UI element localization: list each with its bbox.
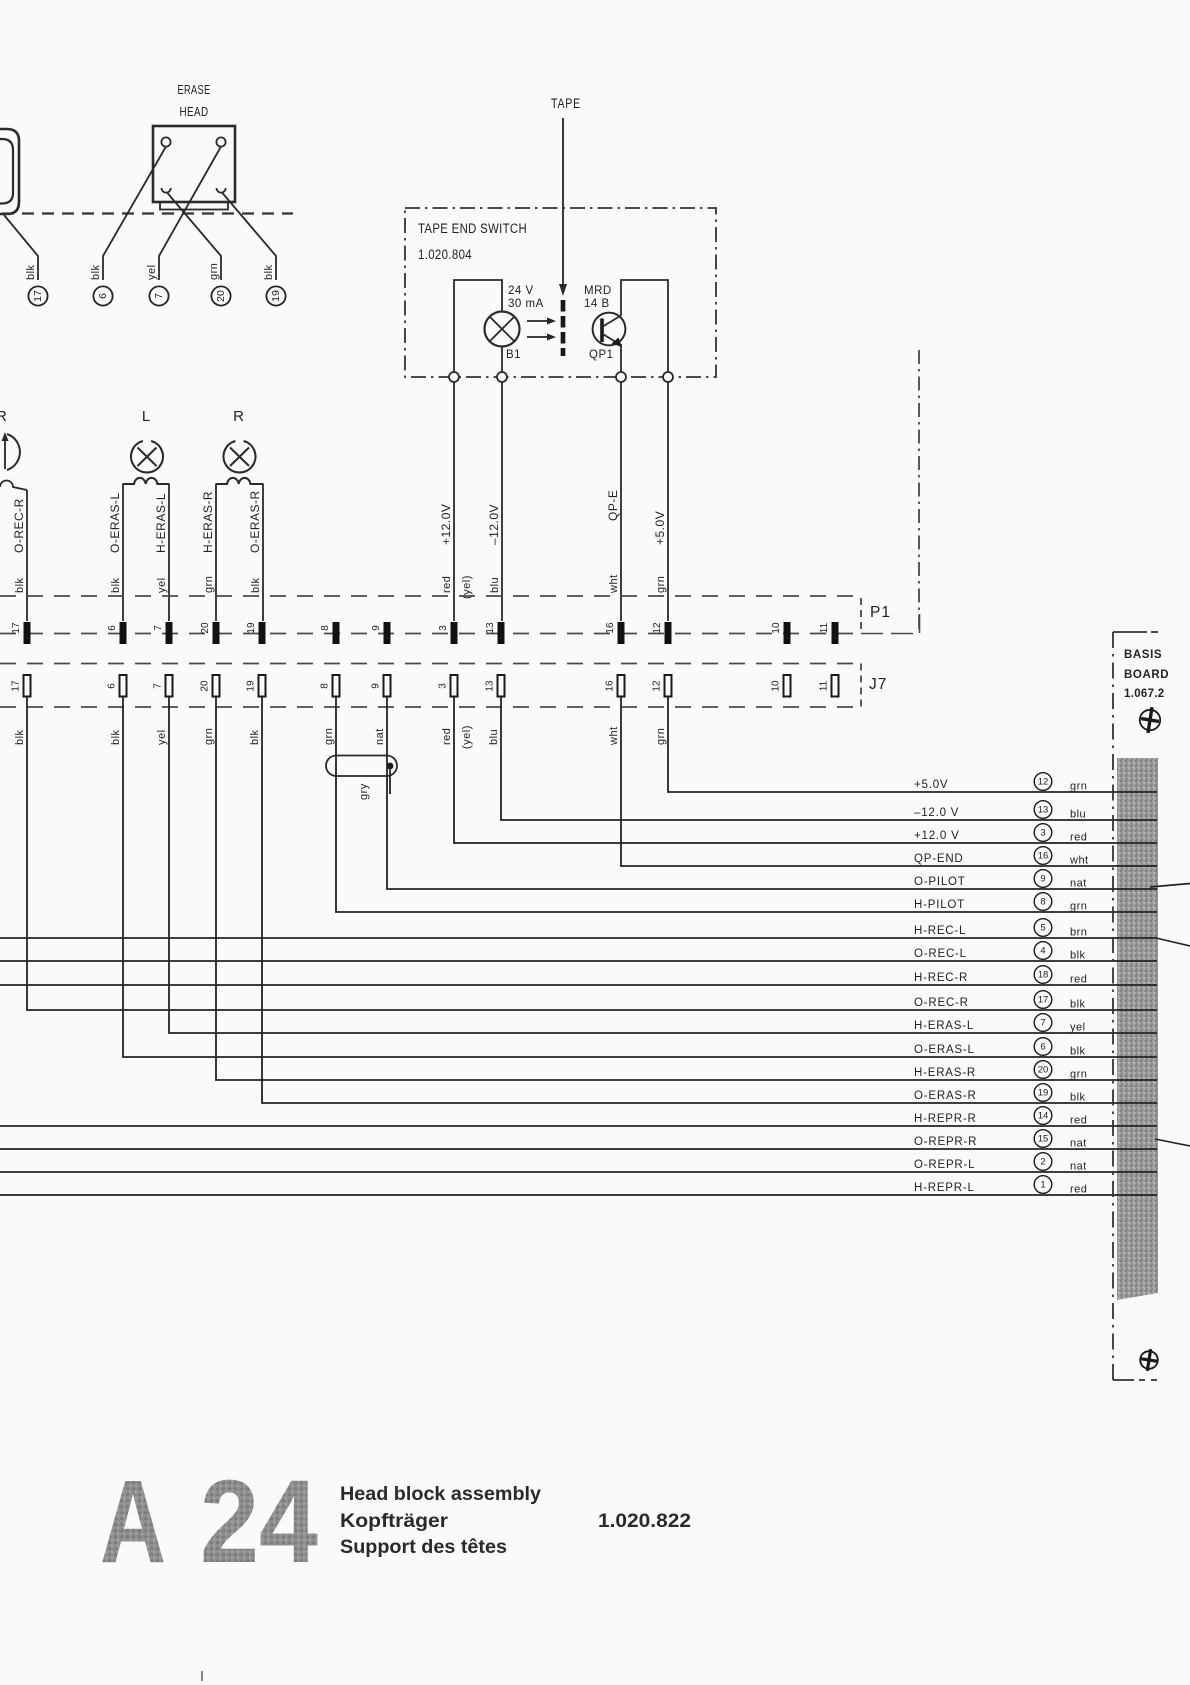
- svg-text:20: 20: [215, 290, 227, 302]
- svg-text:16: 16: [605, 622, 616, 634]
- shield bracket (page-edge cut): [0, 129, 19, 214]
- svg-text:10: 10: [771, 622, 782, 634]
- svg-text:4: 4: [1040, 946, 1045, 957]
- svg-text:R: R: [233, 408, 244, 425]
- svg-text:8: 8: [1040, 897, 1045, 908]
- svg-text:O-REC-R: O-REC-R: [914, 997, 969, 1009]
- svg-text:QP-END: QP-END: [914, 853, 964, 865]
- wire H-REC-L continuation: [1156, 938, 1190, 946]
- svg-text:19: 19: [1038, 1088, 1049, 1099]
- svg-text:H-REC-L: H-REC-L: [914, 925, 966, 937]
- svg-text:P1: P1: [870, 604, 891, 621]
- J7 pin 19: [259, 675, 266, 697]
- svg-text:QP1: QP1: [589, 349, 614, 361]
- node ref 20: [211, 286, 230, 305]
- svg-text:9: 9: [371, 625, 382, 631]
- module boundary (dash-dot): [918, 350, 920, 632]
- svg-text:HEAD: HEAD: [180, 104, 209, 119]
- svg-text:6: 6: [107, 625, 118, 631]
- svg-text:Head block assembly: Head block assembly: [340, 1483, 541, 1505]
- svg-text:yel: yel: [146, 264, 158, 280]
- svg-text:10: 10: [771, 680, 782, 692]
- registration tick: [201, 1671, 203, 1681]
- svg-text:11: 11: [819, 680, 830, 691]
- svg-text:O-ERAS-L: O-ERAS-L: [914, 1044, 975, 1056]
- svg-text:blk: blk: [25, 264, 37, 280]
- svg-text:5: 5: [1040, 923, 1045, 934]
- svg-text:H-ERAS-R: H-ERAS-R: [201, 491, 215, 553]
- svg-text:H-REPR-R: H-REPR-R: [914, 1113, 977, 1125]
- svg-text:blk: blk: [1070, 1046, 1086, 1058]
- net H-REC-R pin 18: [914, 966, 1087, 986]
- tape path arrow: [562, 118, 564, 285]
- svg-text:17: 17: [11, 680, 22, 692]
- svg-text:blk: blk: [1070, 1092, 1086, 1104]
- svg-text:9: 9: [371, 683, 382, 689]
- node ref 17: [28, 286, 47, 305]
- svg-text:grn: grn: [1070, 901, 1087, 913]
- shield gry: [326, 756, 397, 777]
- wire +12.0V: [453, 382, 455, 621]
- svg-text:grn: grn: [1070, 1069, 1087, 1081]
- P1 pin 11: [832, 622, 839, 644]
- svg-text:7: 7: [1040, 1018, 1045, 1029]
- svg-text:red: red: [1070, 1115, 1087, 1127]
- svg-text:H-ERAS-L: H-ERAS-L: [914, 1020, 974, 1032]
- svg-text:blu: blu: [1070, 809, 1086, 821]
- J7 pin 11: [832, 675, 839, 697]
- svg-text:red: red: [441, 728, 453, 745]
- svg-text:yel: yel: [156, 577, 168, 593]
- svg-text:14: 14: [1038, 1111, 1049, 1122]
- svg-text:blk: blk: [14, 577, 26, 593]
- net H-PILOT pin 8: [914, 893, 1087, 913]
- svg-text:wht: wht: [608, 574, 620, 594]
- svg-text:1.067.2: 1.067.2: [1124, 688, 1164, 700]
- P1 pin 7: [166, 622, 173, 644]
- svg-text:8: 8: [320, 625, 331, 631]
- wire blk to ref 6: [103, 147, 166, 281]
- svg-text:30 mA: 30 mA: [508, 298, 544, 310]
- node ref 6: [93, 286, 112, 305]
- net O-REPR-R pin 15: [914, 1130, 1087, 1150]
- wire O-REC-R: [26, 490, 28, 621]
- node ref 7: [149, 286, 168, 305]
- net +12.0 V pin 3: [914, 824, 1087, 844]
- wire grn to ref 20: [167, 193, 221, 281]
- svg-text:H-REC-R: H-REC-R: [914, 972, 968, 984]
- board connector strip (stippled): [1117, 758, 1158, 1300]
- svg-text:2: 2: [1040, 1157, 1045, 1168]
- P1 pin 20: [213, 622, 220, 644]
- svg-text:20: 20: [200, 680, 211, 692]
- net H-ERAS-R pin 20: [914, 1061, 1087, 1081]
- svg-text:TAPE: TAPE: [551, 96, 581, 111]
- P1 pin 16: [618, 622, 625, 644]
- svg-text:nat: nat: [1070, 878, 1087, 890]
- svg-text:blk: blk: [1070, 950, 1086, 962]
- svg-text:17: 17: [1038, 995, 1049, 1006]
- J7 pin 3: [451, 675, 458, 697]
- J7 pin 9: [384, 675, 391, 697]
- svg-text:6: 6: [107, 683, 118, 689]
- wire O-PILOT continuation: [1150, 884, 1190, 888]
- svg-text:gry: gry: [358, 783, 370, 800]
- wire QP-E: [620, 382, 622, 621]
- wire H-REPR-R (from page edge): [0, 1125, 1157, 1127]
- svg-text:13: 13: [485, 622, 496, 634]
- svg-text:9: 9: [1040, 874, 1045, 885]
- svg-text:O-REPR-R: O-REPR-R: [914, 1136, 977, 1148]
- wire O-REC-R route: [27, 697, 1157, 1011]
- svg-text:grn: grn: [203, 728, 215, 745]
- erase head terminal 2: [216, 137, 225, 146]
- P1 pin 9: [384, 622, 391, 644]
- wire H-PILOT route: [336, 697, 1157, 913]
- net H-ERAS-L pin 7: [914, 1014, 1086, 1034]
- erase head L coil: [123, 478, 169, 484]
- erase head L symbol: [131, 441, 163, 472]
- J7 pin 13: [498, 675, 505, 697]
- wire O-REPR-R (from page edge): [0, 1148, 1157, 1150]
- svg-text:7: 7: [153, 683, 164, 689]
- svg-text:6: 6: [1040, 1042, 1045, 1053]
- svg-text:(yel): (yel): [461, 725, 473, 749]
- erase head body: [153, 126, 235, 202]
- svg-text:red: red: [441, 576, 453, 593]
- svg-text:Kopfträger: Kopfträger: [340, 1510, 448, 1532]
- wire H-ERAS-R route: [216, 697, 1157, 1081]
- lamp B1: [485, 312, 520, 347]
- tape end switch boundary box: [405, 208, 716, 377]
- node on box edge x=621: [616, 372, 626, 382]
- svg-text:O-REPR-L: O-REPR-L: [914, 1159, 975, 1171]
- wire H-ERAS-L route: [169, 697, 1157, 1034]
- wire H-REC-R (from page edge): [0, 984, 1157, 986]
- net H-REPR-L pin 1: [914, 1176, 1087, 1196]
- wire O-ERAS-R route: [262, 697, 1157, 1104]
- svg-text:8: 8: [320, 683, 331, 689]
- svg-text:L: L: [142, 408, 150, 425]
- wire O-ERAS-R: [262, 484, 264, 622]
- net QP-END pin 16: [914, 847, 1089, 867]
- svg-text:12: 12: [652, 680, 663, 692]
- svg-text:18: 18: [1038, 970, 1049, 981]
- wire H-ERAS-R: [215, 484, 217, 622]
- net O-REC-L pin 4: [914, 942, 1086, 962]
- light arrows: [527, 321, 548, 337]
- svg-text:13: 13: [1038, 805, 1049, 816]
- dashed head-block boundary: [2, 212, 293, 214]
- svg-text:H-ERAS-R: H-ERAS-R: [914, 1067, 976, 1079]
- svg-text:19: 19: [246, 680, 257, 692]
- erase head R symbol: [223, 441, 255, 472]
- svg-text:nat: nat: [374, 728, 386, 745]
- svg-text:Support des têtes: Support des têtes: [340, 1536, 507, 1558]
- net H-REC-L pin 5: [914, 919, 1087, 939]
- J7 pin 8: [333, 675, 340, 697]
- net &#8211;12.0 V pin 13: [914, 801, 1086, 821]
- J7 pin 12: [665, 675, 672, 697]
- P1 pin 12: [665, 622, 672, 644]
- wire H-ERAS-L: [168, 484, 170, 622]
- erase head terminal 1: [161, 137, 170, 146]
- svg-text:12: 12: [1038, 777, 1049, 788]
- net O-REPR-L pin 2: [914, 1153, 1087, 1173]
- P1 pin 8: [333, 622, 340, 644]
- wire H-REPR-R continuation: [1155, 1139, 1190, 1146]
- wire QP1 emitter: [620, 344, 622, 372]
- svg-text:QP-E: QP-E: [606, 490, 620, 521]
- svg-text:3: 3: [1040, 828, 1045, 839]
- erase head terminal 3: [162, 188, 171, 193]
- svg-text:grn: grn: [203, 576, 215, 593]
- svg-text:ERASE: ERASE: [178, 82, 211, 97]
- svg-text:19: 19: [246, 622, 257, 634]
- svg-text:blk: blk: [90, 264, 102, 280]
- wire +5.0V route: [668, 697, 1157, 793]
- svg-text:O-ERAS-R: O-ERAS-R: [248, 490, 262, 553]
- wire lamp feed (+12V branch): [454, 280, 502, 372]
- phototransistor QP1: [593, 313, 626, 346]
- svg-text:–12.0V: –12.0V: [487, 504, 501, 545]
- net O-PILOT pin 9: [914, 870, 1087, 890]
- svg-text:nat: nat: [1070, 1138, 1087, 1150]
- svg-text:J7: J7: [869, 676, 887, 693]
- svg-text:+12.0V: +12.0V: [439, 504, 453, 545]
- svg-text:17: 17: [32, 290, 44, 302]
- svg-text:O-REC-R: O-REC-R: [12, 498, 26, 553]
- svg-text:nat: nat: [1070, 1161, 1087, 1173]
- svg-text:blu: blu: [488, 729, 500, 745]
- svg-text:17: 17: [11, 622, 22, 634]
- svg-text:H-REPR-L: H-REPR-L: [914, 1182, 975, 1194]
- wire +12.0V route: [454, 697, 1157, 844]
- svg-text:TAPE END SWITCH: TAPE END SWITCH: [418, 221, 527, 236]
- wire yel to ref 7: [159, 147, 221, 281]
- svg-text:+12.0 V: +12.0 V: [914, 830, 960, 842]
- svg-text:blk: blk: [14, 729, 26, 745]
- svg-text:BASIS: BASIS: [1124, 649, 1162, 661]
- svg-text:3: 3: [438, 625, 449, 631]
- svg-text:24 V: 24 V: [508, 285, 534, 297]
- wire lamp return: [501, 347, 503, 373]
- wire O-ERAS-L: [122, 484, 124, 622]
- screw symbol bottom: [1139, 1348, 1160, 1372]
- svg-text:H-PILOT: H-PILOT: [914, 899, 965, 911]
- P1 pin 19: [259, 622, 266, 644]
- svg-text:1.020.822: 1.020.822: [598, 1510, 691, 1532]
- svg-text:yel: yel: [1070, 1022, 1086, 1034]
- wire +5.0V: [667, 382, 669, 621]
- svg-text:MRD: MRD: [584, 285, 612, 297]
- erase head terminal 4: [217, 188, 226, 193]
- svg-text:6: 6: [97, 293, 109, 299]
- net H-REPR-R pin 14: [914, 1107, 1087, 1127]
- svg-text:15: 15: [1038, 1134, 1049, 1145]
- svg-text:1.020.804: 1.020.804: [418, 247, 472, 262]
- svg-text:11: 11: [819, 622, 830, 633]
- svg-text:blk: blk: [110, 729, 122, 745]
- svg-text:19: 19: [270, 290, 282, 302]
- tape (bold dashes): [561, 300, 566, 356]
- svg-text:grn: grn: [208, 263, 220, 280]
- wire blk to ref 19: [222, 193, 276, 281]
- wire O-REPR-L (from page edge): [0, 1171, 1157, 1173]
- svg-text:wht: wht: [608, 726, 620, 746]
- erase head R coil: [216, 478, 263, 484]
- svg-text:–12.0 V: –12.0 V: [914, 807, 959, 819]
- wire O-PILOT route: [387, 697, 1157, 890]
- wire H-REPR-L (from page edge): [0, 1194, 1157, 1196]
- svg-text:20: 20: [200, 622, 211, 634]
- svg-text:blk: blk: [1070, 999, 1086, 1011]
- svg-text:+5.0V: +5.0V: [653, 511, 667, 545]
- svg-text:blk: blk: [250, 577, 262, 593]
- record head R coil (partial): [0, 481, 27, 490]
- svg-text:12: 12: [652, 622, 663, 634]
- node ref 19: [266, 286, 285, 305]
- svg-text:blk: blk: [263, 264, 275, 280]
- svg-text:16: 16: [605, 680, 616, 692]
- wire blk to ref 17: [4, 215, 38, 280]
- screw symbol top: [1138, 706, 1162, 735]
- svg-text:7: 7: [153, 625, 164, 631]
- P1 pin 10: [784, 622, 791, 644]
- svg-text:B1: B1: [506, 349, 521, 361]
- wire H-REC-L (from page edge): [0, 937, 1157, 939]
- svg-text:7: 7: [153, 293, 165, 299]
- net O-ERAS-R pin 19: [914, 1084, 1086, 1104]
- J7 pin 6: [120, 675, 127, 697]
- svg-text:14 B: 14 B: [584, 298, 610, 310]
- svg-text:24: 24: [200, 1456, 318, 1588]
- svg-text:wht: wht: [1069, 855, 1089, 867]
- svg-text:R: R: [0, 408, 7, 425]
- net O-ERAS-L pin 6: [914, 1038, 1086, 1058]
- basis board edge (dash-dot): [1112, 632, 1114, 1380]
- wire QP-END route: [621, 697, 1157, 867]
- connector J7 outline: [0, 663, 861, 665]
- J7 pin 20: [213, 675, 220, 697]
- svg-text:O-PILOT: O-PILOT: [914, 876, 966, 888]
- svg-text:grn: grn: [655, 576, 667, 593]
- P1 pin 13: [498, 622, 505, 644]
- net +5.0V pin 12: [914, 773, 1087, 793]
- wire -12.0V: [501, 382, 503, 621]
- svg-text:1: 1: [1040, 1180, 1045, 1191]
- svg-text:blk: blk: [110, 577, 122, 593]
- svg-text:O-ERAS-R: O-ERAS-R: [914, 1090, 977, 1102]
- J7 pin 17: [24, 675, 31, 697]
- svg-text:red: red: [1070, 974, 1087, 986]
- wire O-ERAS-L route: [123, 697, 1157, 1058]
- J7 pin 10: [784, 675, 791, 697]
- svg-text:grn: grn: [323, 728, 335, 745]
- svg-text:H-ERAS-L: H-ERAS-L: [154, 493, 168, 553]
- svg-text:16: 16: [1038, 851, 1049, 862]
- svg-text:A: A: [100, 1456, 166, 1588]
- svg-text:grn: grn: [655, 728, 667, 745]
- svg-text:O-REC-L: O-REC-L: [914, 948, 967, 960]
- svg-text:yel: yel: [156, 729, 168, 745]
- record head R (partial symbol): [7, 434, 20, 470]
- svg-text:O-ERAS-L: O-ERAS-L: [108, 492, 122, 553]
- svg-text:blk: blk: [249, 729, 261, 745]
- node on box edge x=454: [449, 372, 459, 382]
- svg-text:brn: brn: [1070, 927, 1087, 939]
- wire O-REC-L (from page edge): [0, 960, 1157, 962]
- svg-text:red: red: [1070, 1184, 1087, 1196]
- svg-text:BOARD: BOARD: [1124, 669, 1169, 681]
- svg-text:13: 13: [485, 680, 496, 692]
- wire &#8211;12.0V route: [501, 697, 1157, 821]
- wire QP1 collector to +5V: [621, 280, 668, 372]
- connector P1 outline: [0, 595, 861, 597]
- P1 pin 17: [24, 622, 31, 644]
- svg-text:+5.0V: +5.0V: [914, 779, 948, 791]
- net O-REC-R pin 17: [914, 991, 1086, 1011]
- svg-text:20: 20: [1038, 1065, 1049, 1076]
- svg-text:red: red: [1070, 832, 1087, 844]
- svg-text:grn: grn: [1070, 781, 1087, 793]
- svg-text:blu: blu: [489, 577, 501, 593]
- J7 pin 16: [618, 675, 625, 697]
- node on box edge x=668: [663, 372, 673, 382]
- P1 pin 3: [451, 622, 458, 644]
- P1 pin 6: [120, 622, 127, 644]
- svg-text:3: 3: [438, 683, 449, 689]
- J7 pin 7: [166, 675, 173, 697]
- node on box edge x=502: [497, 372, 507, 382]
